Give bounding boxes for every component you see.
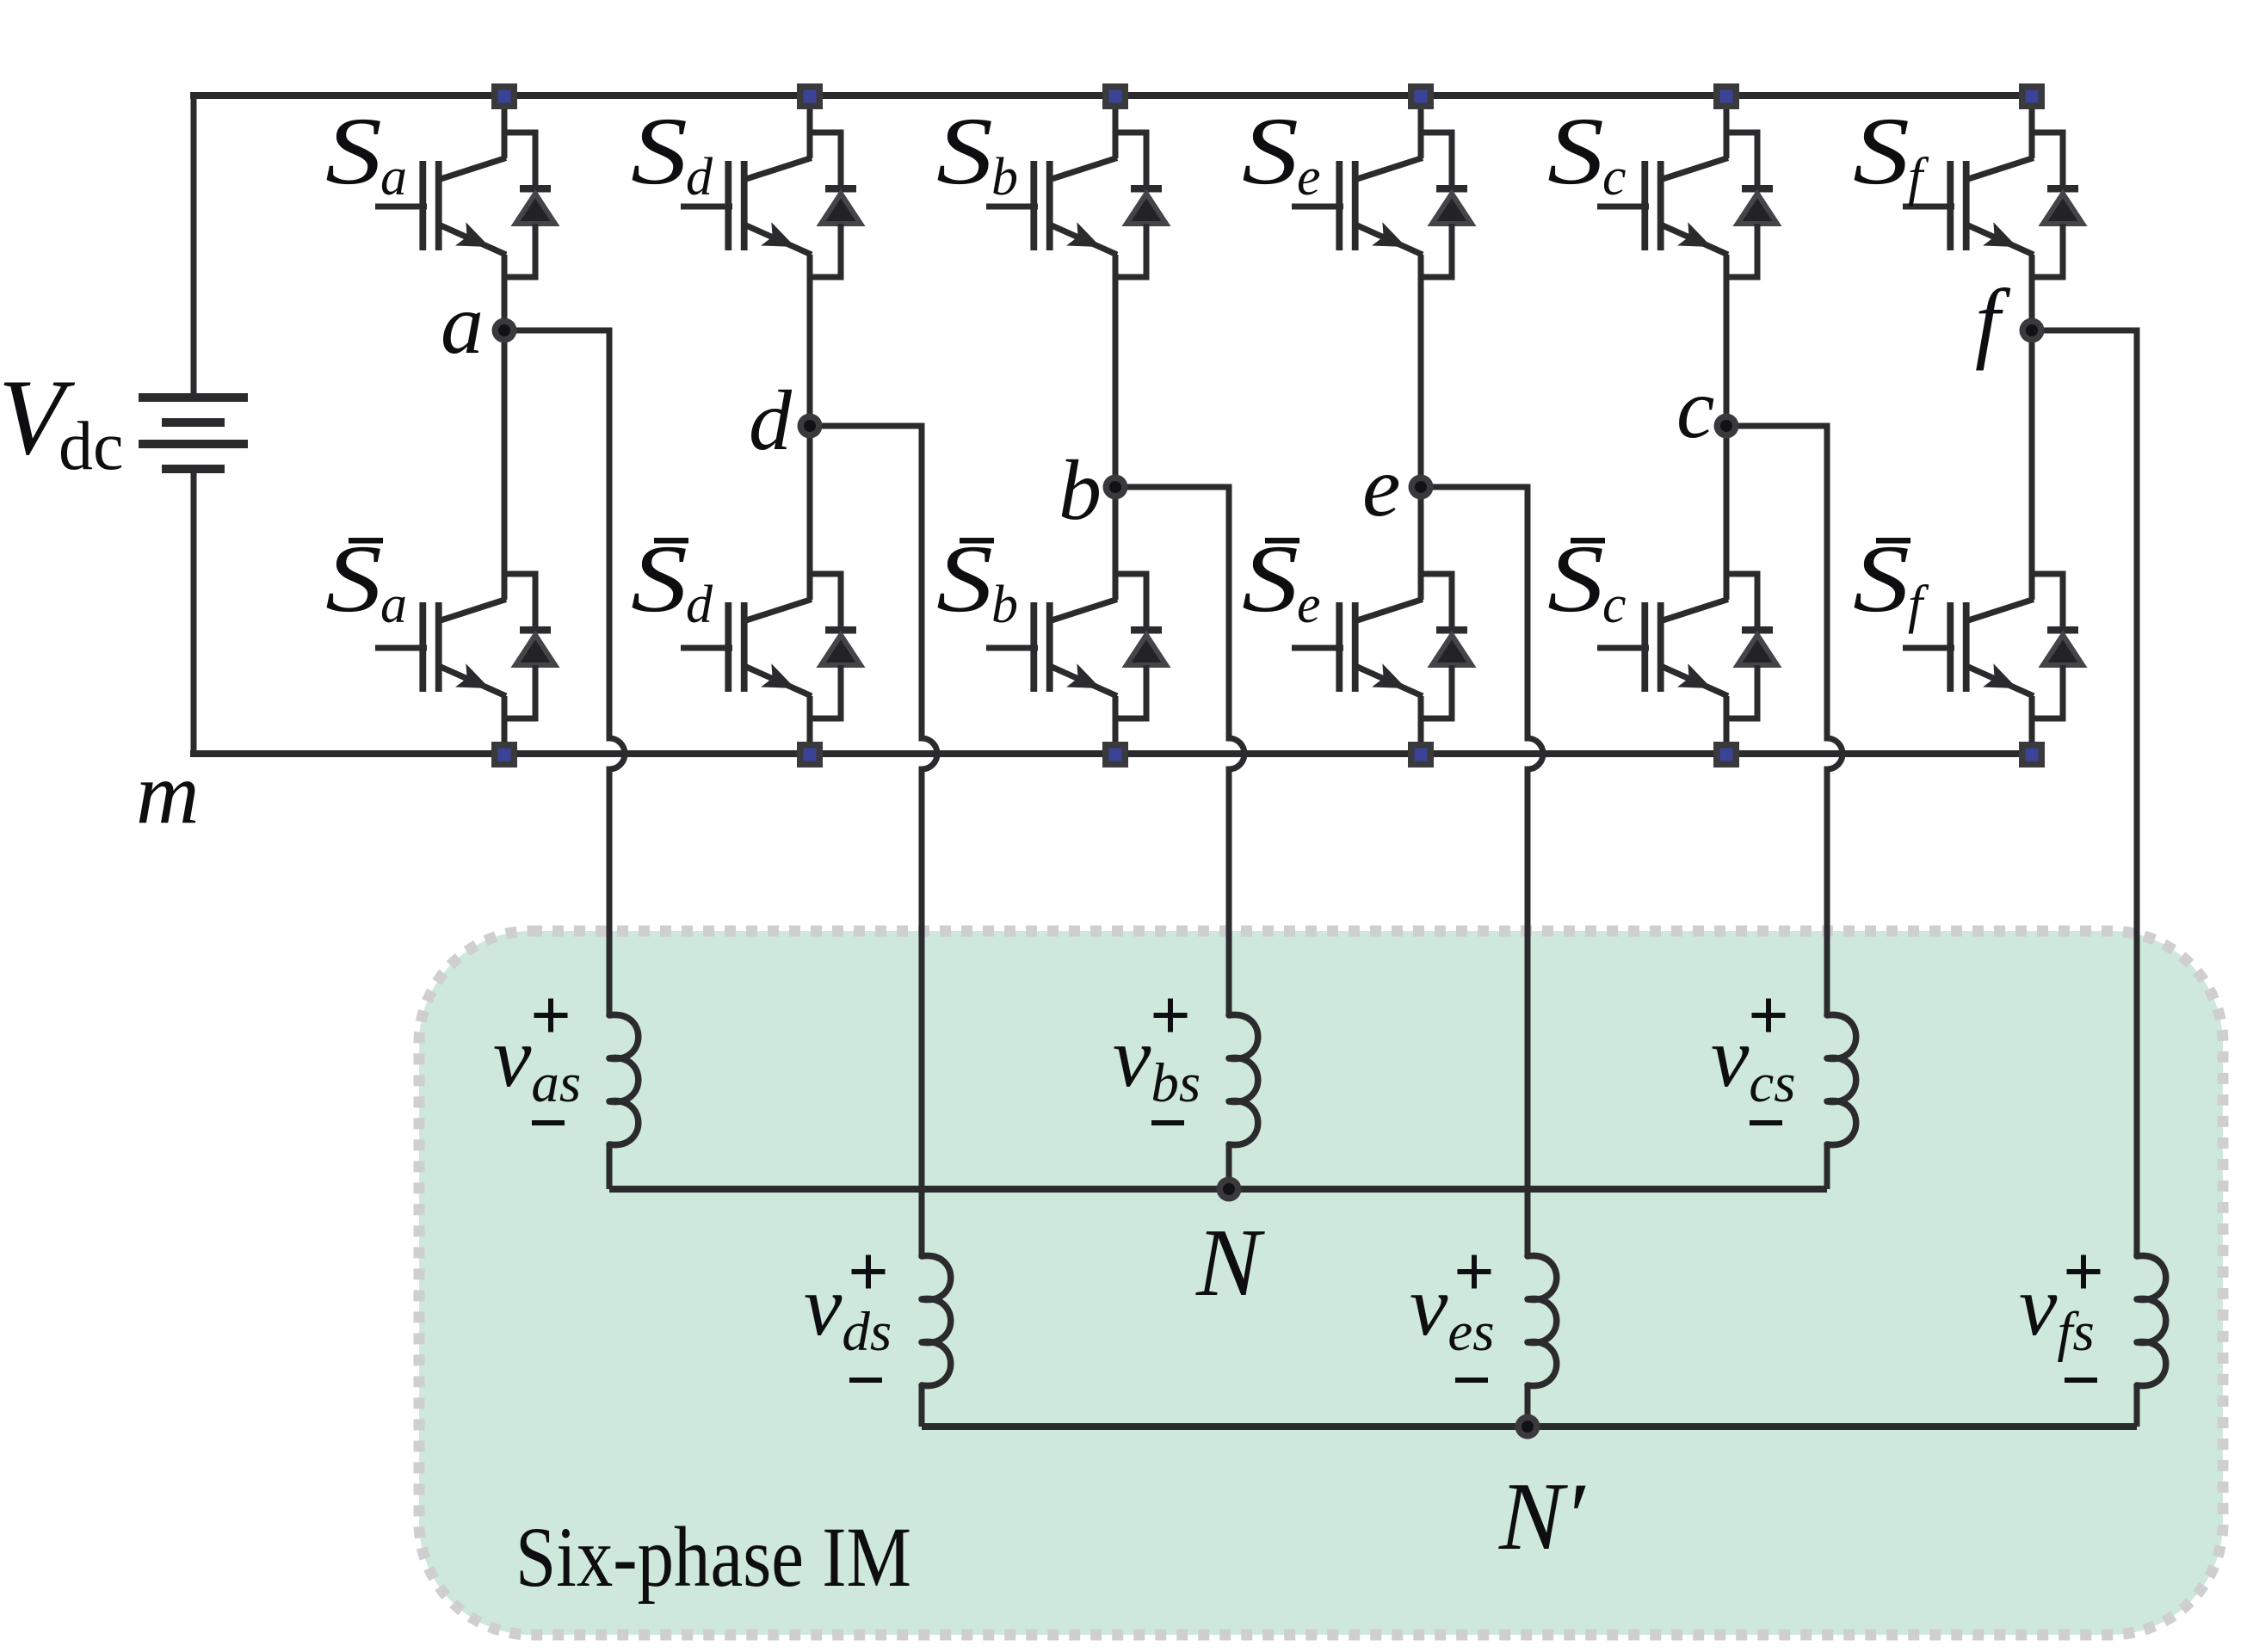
- transistor Sf (upper IGBT): [1903, 158, 2034, 256]
- wire emitter lead Sb to node b: [1113, 255, 1119, 487]
- wire emitter lead Sd to node d: [807, 255, 813, 426]
- label S&#773;e: [1242, 526, 1321, 634]
- node f: [2020, 318, 2045, 343]
- svg-text:c: c: [1602, 576, 1626, 634]
- label minus terminal v_as: [532, 1120, 565, 1125]
- svg-text:S: S: [1547, 98, 1604, 205]
- label Sd: [631, 98, 713, 206]
- wire collector lead Sb: [1113, 96, 1119, 158]
- wire collector lead Sc: [1724, 96, 1730, 158]
- diode antiparallel with Sf: [2032, 133, 2083, 277]
- svg-text:c: c: [1676, 361, 1714, 456]
- svg-text:a: a: [380, 576, 407, 634]
- svg-text:c: c: [1602, 148, 1626, 206]
- wire emitter lead Sa to node a: [502, 255, 508, 330]
- wire phase c output (node c to winding): [1726, 426, 1843, 1015]
- label plus terminal v_ds: [852, 1255, 886, 1289]
- six-phase IM body (green rounded box with dotted border): [419, 931, 2223, 1635]
- svg-text:b: b: [1059, 442, 1102, 538]
- svg-text:e: e: [1297, 576, 1321, 634]
- battery Vdc: [139, 393, 248, 473]
- diode antiparallel with Sd: [810, 133, 861, 277]
- transistor Sb (upper IGBT): [986, 158, 1117, 256]
- wire phase b output (node b to winding): [1115, 487, 1244, 1015]
- label Se: [1242, 98, 1321, 206]
- node a: [492, 318, 517, 343]
- wire collector lead S&#773;b: [1113, 487, 1119, 600]
- transistor S&#773;a (lower IGBT): [375, 600, 506, 697]
- transistor S&#773;c (lower IGBT): [1597, 600, 1728, 697]
- node N&#8242;: [1515, 1415, 1540, 1439]
- svg-text:e: e: [1297, 148, 1321, 206]
- svg-text:b: b: [991, 148, 1018, 206]
- svg-text:N: N: [1195, 1210, 1265, 1316]
- inductor v_bs (stator winding phase b): [1229, 1014, 1258, 1189]
- transistor Sa (upper IGBT): [375, 158, 506, 256]
- wire collector lead Se: [1418, 96, 1424, 158]
- svg-text:S: S: [325, 98, 382, 205]
- svg-text:S: S: [1242, 98, 1299, 205]
- label Vdc: [0, 358, 124, 484]
- wire collector lead S&#773;d: [807, 426, 813, 600]
- transistor S&#773;e (lower IGBT): [1292, 600, 1423, 697]
- wire emitter lead Sf to node f: [2029, 255, 2035, 330]
- label Sf: [1853, 98, 1929, 206]
- label Sc: [1547, 98, 1626, 206]
- wire phase f output (node f to winding): [2032, 330, 2137, 1256]
- svg-text:dc: dc: [59, 409, 124, 484]
- label minus terminal v_ds: [849, 1378, 882, 1383]
- svg-text:e: e: [1362, 439, 1400, 534]
- svg-text:S: S: [1242, 526, 1299, 632]
- diode antiparallel with Sb: [1115, 133, 1166, 277]
- wire emitter lead S&#773;e to bottom bus: [1418, 696, 1424, 754]
- diode antiparallel with Sa: [504, 133, 555, 277]
- transistor S&#773;b (lower IGBT): [986, 600, 1117, 697]
- label Sa: [325, 98, 407, 206]
- svg-text:b: b: [991, 576, 1018, 634]
- svg-text:d: d: [686, 576, 713, 634]
- wire emitter lead S&#773;a to bottom bus: [502, 696, 508, 754]
- wire collector lead Sa: [502, 96, 508, 158]
- svg-text:S: S: [631, 98, 688, 205]
- inductor v_ds (stator winding phase d): [922, 1255, 951, 1427]
- transistor Sd (upper IGBT): [681, 158, 812, 256]
- label S&#773;d: [631, 526, 713, 634]
- wire neutral bus N (v_as, v_bs, v_cs common): [609, 1186, 1827, 1193]
- inductor v_fs (stator winding phase f): [2137, 1255, 2166, 1427]
- wire battery negative lead: [191, 472, 197, 757]
- diode antiparallel with Sc: [1726, 133, 1777, 277]
- diode antiparallel with S&#773;f: [2032, 574, 2083, 718]
- node d: [798, 414, 823, 439]
- diode antiparallel with Se: [1421, 133, 1472, 277]
- label minus terminal v_bs: [1151, 1120, 1184, 1125]
- wire emitter lead Sc to node c: [1724, 255, 1730, 426]
- svg-text:S: S: [631, 526, 688, 632]
- label plus terminal v_fs: [2067, 1255, 2101, 1289]
- svg-text:a: a: [441, 276, 484, 372]
- wire neutral bus N&#8242; (v_ds, v_es, v_fs common): [922, 1423, 2137, 1430]
- wire top DC bus: [190, 92, 2032, 99]
- node: bottom bus junction, leg a: [491, 742, 517, 767]
- label S&#773;b: [936, 526, 1018, 634]
- wire collector lead S&#773;f: [2029, 330, 2035, 600]
- node: bottom bus junction, leg d: [797, 742, 823, 767]
- svg-text:S: S: [936, 526, 993, 632]
- node: top bus junction, leg f: [2019, 83, 2045, 109]
- diode antiparallel with S&#773;e: [1421, 574, 1472, 718]
- wire phase e output (node e to winding): [1421, 487, 1543, 1256]
- node b: [1103, 475, 1128, 500]
- wire collector lead Sf: [2029, 96, 2035, 158]
- transistor S&#773;d (lower IGBT): [681, 600, 812, 697]
- wire emitter lead S&#773;b to bottom bus: [1113, 696, 1119, 754]
- node e: [1409, 475, 1434, 500]
- wire emitter lead S&#773;c to bottom bus: [1724, 696, 1730, 754]
- svg-text:S: S: [325, 526, 382, 632]
- label minus terminal v_es: [1455, 1378, 1488, 1383]
- node: top bus junction, leg c: [1713, 83, 1739, 109]
- svg-text:a: a: [380, 148, 407, 206]
- inductor v_as (stator winding phase a): [609, 1014, 639, 1189]
- svg-text:Six-phase IM: Six-phase IM: [515, 1509, 911, 1605]
- label minus terminal v_cs: [1750, 1120, 1782, 1125]
- inductor v_cs (stator winding phase c): [1827, 1014, 1856, 1189]
- transistor S&#773;f (lower IGBT): [1903, 600, 2034, 697]
- label minus terminal v_fs: [2065, 1378, 2097, 1383]
- node: top bus junction, leg b: [1102, 83, 1128, 109]
- wire bottom DC bus (node m rail): [190, 750, 2032, 757]
- node: top bus junction, leg a: [491, 83, 517, 109]
- svg-text:S: S: [1853, 526, 1910, 632]
- label plus terminal v_bs: [1154, 999, 1188, 1032]
- node: bottom bus junction, leg b: [1102, 742, 1128, 767]
- wire emitter lead Se to node e: [1418, 255, 1424, 487]
- label plus terminal v_es: [1458, 1255, 1491, 1289]
- diode antiparallel with S&#773;d: [810, 574, 861, 718]
- node: top bus junction, leg d: [797, 83, 823, 109]
- svg-text:S: S: [1853, 98, 1910, 205]
- svg-text:d: d: [686, 148, 713, 206]
- label plus terminal v_as: [534, 999, 568, 1032]
- wire collector lead Sd: [807, 96, 813, 158]
- node: bottom bus junction, leg e: [1408, 742, 1434, 767]
- wire emitter lead S&#773;f to bottom bus: [2029, 696, 2035, 754]
- node c: [1714, 414, 1739, 439]
- svg-text:m: m: [136, 745, 200, 842]
- inductor v_es (stator winding phase e): [1528, 1255, 1557, 1427]
- node: bottom bus junction, leg c: [1713, 742, 1739, 767]
- svg-text:S: S: [1547, 526, 1604, 632]
- wire collector lead S&#773;c: [1724, 426, 1730, 600]
- wire battery positive lead: [191, 92, 197, 394]
- diode antiparallel with S&#773;c: [1726, 574, 1777, 718]
- transistor Se (upper IGBT): [1292, 158, 1423, 256]
- svg-text:N′: N′: [1498, 1464, 1586, 1570]
- wire emitter lead S&#773;d to bottom bus: [807, 696, 813, 754]
- wire phase d output (node d to winding): [810, 426, 937, 1256]
- label Sb: [936, 98, 1018, 206]
- transistor Sc (upper IGBT): [1597, 158, 1728, 256]
- node: top bus junction, leg e: [1408, 83, 1434, 109]
- svg-text:d: d: [749, 373, 793, 468]
- diode antiparallel with S&#773;a: [504, 574, 555, 718]
- label S&#773;f: [1853, 526, 1929, 634]
- node N: [1217, 1177, 1242, 1202]
- wire collector lead S&#773;a: [502, 330, 508, 600]
- wire collector lead S&#773;e: [1418, 487, 1424, 600]
- diode antiparallel with S&#773;b: [1115, 574, 1166, 718]
- node: bottom bus junction, leg f: [2019, 742, 2045, 767]
- label S&#773;a: [325, 526, 407, 634]
- label S&#773;c: [1547, 526, 1626, 634]
- wire phase a output (node a to winding): [504, 330, 625, 1015]
- label plus terminal v_cs: [1752, 999, 1786, 1032]
- svg-text:S: S: [936, 98, 993, 205]
